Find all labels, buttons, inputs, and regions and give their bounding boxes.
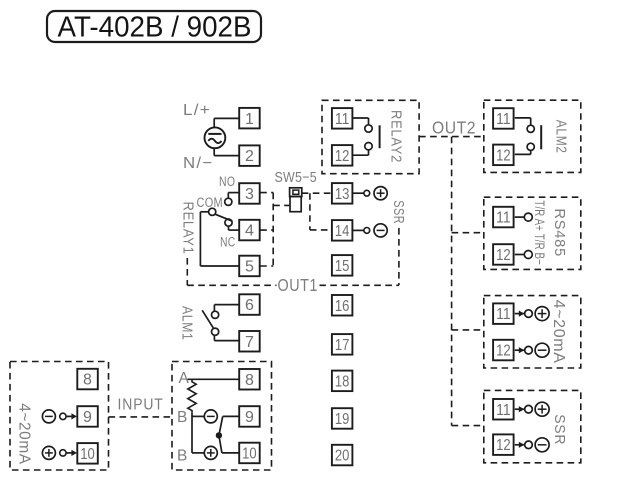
svg-text:ALM2: ALM2 [553,120,570,154]
svg-text:12: 12 [496,247,511,264]
label T/R A+ T/R B- [532,200,548,265]
dashed wire terminal 3 to bus [260,192,273,194]
label L/+ [183,102,211,119]
title box AT-402B / 902B [47,11,261,43]
RTD minus symbol [204,410,217,423]
SSR terminal 11 arrow pad [515,405,533,413]
svg-text:NC: NC [220,234,236,249]
input terminal 10 pad [60,450,77,456]
terminal 19 [332,408,353,429]
svg-text:OUT1: OUT1 [278,275,318,295]
dashed stub to RS485 box [452,232,484,234]
wire terminal 10 stub [222,452,239,454]
wire ALM2 terminal 11 to contact [515,118,531,125]
svg-text:19: 19 [335,411,350,428]
wire terminal 11 to relay2 contact [352,118,368,125]
dashed wire OUT1 horizontal [187,284,399,286]
svg-text:SSR: SSR [390,200,407,224]
terminal 5 [239,256,260,277]
dashed wire terminal 5 to bus [260,265,273,267]
relay1 NC contact [225,219,232,226]
label OUT1 [277,275,320,295]
svg-text:RS485: RS485 [551,208,568,257]
svg-text:1: 1 [245,111,254,128]
dashed OUT2 bus vertical [451,137,453,426]
dashed box RS485 [484,197,581,269]
4-20mA minus symbol [535,343,549,357]
wire RS485 terminal 11 pad [515,213,533,221]
terminal 7 [239,331,260,352]
4-20mA terminal 11 arrow pad [515,310,533,318]
input minus symbol [42,410,55,423]
4-20mA terminal 12 arrow pad [515,346,533,354]
svg-text:N/−: N/− [183,155,214,172]
terminal 2 [239,145,260,166]
ALM1 lever [202,310,213,328]
input terminal 10 [77,443,98,464]
dashed wire OUT1 vertical riser [398,228,400,285]
label SW5-5 [275,170,317,186]
switch SW5-5 [290,188,302,212]
ALM2 terminal 12 [493,145,513,166]
svg-text:COM: COM [197,195,224,210]
dashed box 4-20mA input [10,362,109,471]
terminal 15 [332,255,353,276]
svg-text:10: 10 [80,446,95,463]
terminal 1 [239,108,260,128]
terminal 4 [239,220,260,241]
svg-text:L/+: L/+ [183,102,211,119]
dashed wire terminal 4 to bus [260,229,273,231]
svg-text:5: 5 [245,259,254,276]
SSR terminal 12 arrow pad [515,441,533,449]
input terminal 9 pad [60,413,77,419]
label COM [197,195,224,210]
ALM1 upper contact [212,311,219,318]
relay2 armature [379,125,381,148]
RTD terminal 9 [239,406,260,427]
wire selector slant [219,416,223,453]
dashed box RELAY2 [322,100,419,173]
RTD terminal 10 [239,443,260,464]
wire RS485 terminal 12 pad [515,251,533,259]
dashed wire to terminal 14 [310,229,332,231]
RTD plus symbol [204,446,217,459]
label RELAY1 [179,202,196,255]
label ALM1 [178,306,195,341]
SSR minus symbol [374,224,387,237]
RTD terminal 8 [239,369,260,390]
dashed stub to SSR box [452,425,484,427]
RTD resistor [188,379,196,413]
svg-text:9: 9 [245,409,254,426]
wire B vertical [191,413,193,453]
wire terminal 6 to ALM1 contact [214,305,239,312]
SSR terminal 12 [493,434,513,455]
dashed bus vertical [272,193,274,266]
dashed wire RELAY2 to OUT2 bus [419,136,484,138]
dashed box ALM2 [484,100,581,172]
SSR minus symbol right [535,438,549,452]
dashed wire INPUT [109,416,173,418]
dashed wire bus to SW5-5 [273,204,289,206]
svg-text:11: 11 [496,306,511,323]
wire terminal 14 to SSR minus [352,228,369,234]
label RS485 [551,208,568,257]
wire COM to terminal 5 [200,212,239,266]
wire terminal 9 stub [223,415,240,417]
wire relay2 contact to terminal 12 [352,150,368,155]
svg-text:14: 14 [335,223,350,240]
SSR terminal 11 [493,399,513,420]
relay1 lever [215,214,232,221]
svg-text:B: B [177,447,188,464]
label RELAY2 [388,110,405,163]
input plus symbol [42,446,55,459]
svg-text:17: 17 [335,337,350,354]
RS485 terminal 12 [493,244,513,265]
svg-text:RELAY2: RELAY2 [388,110,405,163]
wire B to minus pad [192,415,204,417]
terminal 13 [332,183,353,204]
svg-text:2: 2 [245,148,254,165]
4-20mA terminal 12 [493,340,513,361]
terminal 20 [332,445,353,466]
label B middle [177,409,188,426]
terminal 3 [239,183,260,204]
terminal 6 [239,294,260,315]
svg-text:12: 12 [496,147,511,164]
terminal 18 [332,371,353,392]
relay1 NO contact [225,198,232,205]
svg-text:RELAY1: RELAY1 [179,202,196,255]
wire AC source to terminal 1 [214,118,239,127]
relay1 COM contact [209,208,216,215]
label OUT2 [432,118,476,138]
label N/- [183,155,214,172]
svg-text:ALM1: ALM1 [178,306,195,341]
svg-text:3: 3 [245,186,254,203]
svg-text:B: B [177,409,188,426]
svg-text:SW5−5: SW5−5 [275,170,317,186]
svg-text:13: 13 [335,186,350,203]
svg-text:12: 12 [496,343,511,360]
svg-text:12: 12 [335,148,350,165]
label B bottom [177,447,188,464]
wire NC contact to terminal 4 [229,226,240,230]
label 4~20mA left [16,403,33,465]
svg-text:11: 11 [496,111,511,128]
wire B to plus pad [192,452,204,454]
svg-text:12: 12 [496,437,511,454]
svg-text:10: 10 [242,446,257,463]
svg-text:4~20mA: 4~20mA [550,300,567,364]
input terminal 9 [77,406,98,427]
dashed wire SW5-5 to terminal 13 [302,192,332,194]
svg-text:11: 11 [496,402,511,419]
label NC [220,234,236,249]
terminal 14 [332,220,353,241]
svg-text:4~20mA: 4~20mA [16,403,33,465]
label SSR mid [390,200,407,224]
wire A to terminal 8 [188,378,240,380]
dashed wire RELAY1 to OUT1 [186,258,188,285]
svg-text:4: 4 [245,223,254,240]
wire NO contact to terminal 3 [228,193,239,199]
terminal 12 [332,145,353,166]
label SSR right [551,414,568,445]
svg-text:8: 8 [245,372,254,389]
svg-text:6: 6 [245,297,254,314]
terminal 11 [332,108,353,129]
label ALM2 [553,120,570,154]
terminal 16 [332,295,353,316]
label INPUT [118,397,164,414]
4-20mA plus symbol [535,307,549,321]
svg-text:15: 15 [335,258,350,275]
ALM2 lower contact [527,143,534,150]
terminal 17 [332,334,353,355]
ALM2 terminal 11 [493,108,513,129]
RS485 terminal 11 [493,207,513,228]
svg-text:16: 16 [335,298,350,315]
dashed box SSR output [484,390,581,462]
4-20mA terminal 11 [493,303,513,324]
svg-text:AT-402B / 902B: AT-402B / 902B [58,11,252,43]
SSR plus symbol [374,187,387,200]
relay2 upper contact [365,125,372,132]
wire ALM2 contact to terminal 12 [515,150,531,154]
svg-text:18: 18 [335,374,350,391]
dashed box RTD input [172,362,272,471]
svg-text:8: 8 [83,372,92,389]
ALM2 armature [540,125,542,149]
svg-text:SSR: SSR [551,414,568,445]
label A [179,370,190,387]
svg-text:11: 11 [335,111,350,128]
AC source symbol [205,127,226,148]
svg-text:7: 7 [245,334,254,351]
ALM2 upper contact [527,125,534,132]
label 4~20mA right [550,300,567,364]
svg-text:20: 20 [335,448,350,465]
relay2 lower contact [365,143,372,150]
wire AC source to terminal 2 [214,148,239,156]
svg-text:NO: NO [219,174,235,189]
svg-text:11: 11 [496,210,511,227]
svg-text:INPUT: INPUT [118,397,164,414]
input terminal 8 [77,369,98,390]
dashed box 4-20mA output [484,296,581,368]
SSR plus symbol right [535,402,549,416]
dashed stub to 4-20mA box [452,329,484,331]
junction dot [216,432,222,438]
wire ALM1 contact to terminal 7 [214,335,239,340]
label NO [219,174,235,189]
svg-text:9: 9 [83,409,92,426]
ALM1 lower contact [212,328,219,335]
svg-text:OUT2: OUT2 [432,118,476,138]
dashed branch vertical to terminal 14 [309,193,311,230]
svg-text:T/R A+ T/R B−: T/R A+ T/R B− [532,200,548,265]
wire terminal 13 to SSR plus [352,190,369,196]
